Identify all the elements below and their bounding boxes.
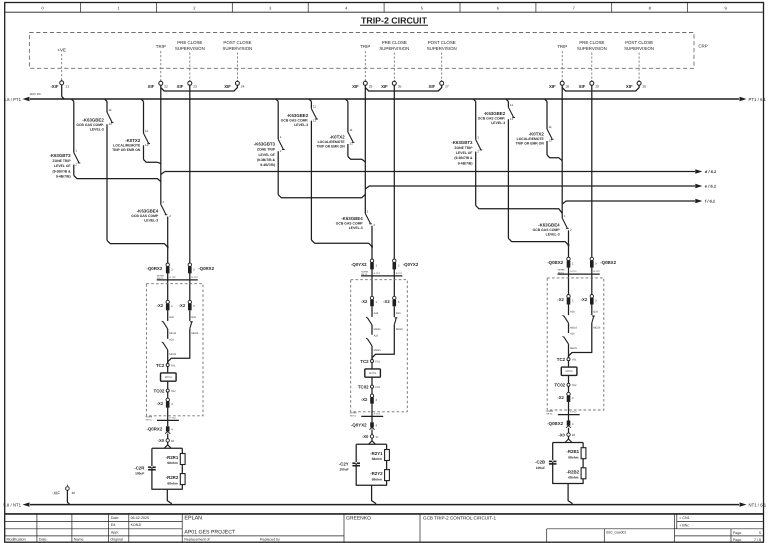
- svg-text:LEVEL OF: LEVEL OF: [54, 164, 71, 168]
- contact -K63GBT3 (R) zone trip: [74, 101, 161, 181]
- svg-text:12: 12: [313, 118, 317, 122]
- svg-text:TRIP: TRIP: [557, 44, 567, 49]
- svg-text:B26: B26: [593, 310, 598, 313]
- svg-text:PT1 / 6.1: PT1 / 6.1: [749, 97, 767, 102]
- svg-text:-Q0RX2: -Q0RX2: [146, 427, 162, 432]
- resistor -R2B1 (B): [581, 448, 586, 459]
- junction PT1 bus tap -K0TX2 (B): [545, 99, 547, 101]
- svg-text:B-TC2: B-TC2: [396, 272, 403, 275]
- svg-text:TC02: TC02: [554, 383, 565, 388]
- svg-text:1: 1: [564, 214, 566, 218]
- svg-text:12: 12: [145, 143, 149, 147]
- svg-text:LOCAL/REMOTE: LOCAL/REMOTE: [517, 137, 545, 141]
- svg-text:-K0TX2: -K0TX2: [125, 138, 141, 143]
- svg-text:1: 1: [280, 135, 282, 139]
- svg-text:2: 2: [570, 228, 572, 232]
- svg-text:MTC2: MTC2: [369, 372, 377, 375]
- svg-text:9: 9: [724, 6, 727, 11]
- resistor -R2R1 (R): [180, 454, 185, 465]
- wire split -X0 to RC network (Y): [369, 438, 376, 444]
- svg-text:MD25: MD25: [374, 349, 381, 352]
- svg-text:LEVEL-3: LEVEL-3: [144, 218, 158, 222]
- label -K63GBT3 (R): [49, 153, 71, 178]
- svg-text:11: 11: [510, 103, 513, 107]
- junction PT1 bus tap -K63GBT3 (Y): [276, 99, 278, 101]
- junction tap to output line (B): [562, 201, 566, 204]
- wire X2:5 to aux contact (Y): [393, 306, 395, 317]
- svg-text:-K63GBT3: -K63GBT3: [451, 140, 473, 145]
- svg-text:7: 7: [573, 6, 576, 11]
- capacitor -C2R 100uF (R): [148, 466, 156, 470]
- title block field Ed.: [111, 523, 141, 527]
- terminal XIF:24 (POST CLOSE SUP R): [224, 80, 244, 89]
- wire X2:5 to aux contact (R): [189, 310, 191, 321]
- svg-text:5: 5: [398, 263, 400, 267]
- svg-text:AB-CL: AB-CL: [350, 414, 357, 417]
- contact -K63GBE2 (B) GCB gas comp level-3: [508, 101, 568, 246]
- junction PT1 bus tap -K63GBE2 (Y): [309, 99, 311, 101]
- signal label TRIP (B phase): [557, 44, 567, 80]
- title block page count: [733, 538, 761, 542]
- svg-text:5: 5: [398, 300, 400, 304]
- terminal -X0:18 (B): [558, 428, 575, 438]
- svg-text:PRE CLOSE: PRE CLOSE: [382, 40, 407, 45]
- svg-text:8: 8: [649, 6, 652, 11]
- wire RC network to NT1 bus (R): [167, 489, 171, 504]
- svg-text:Name: Name: [74, 538, 84, 542]
- signal label TRIP (Y phase): [360, 44, 370, 80]
- svg-text:-K63GBE4: -K63GBE4: [137, 208, 159, 213]
- svg-text:NT1 / 6.1: NT1 / 6.1: [749, 503, 767, 508]
- wire -XIF:28 to NT1 bus: [67, 490, 69, 504]
- svg-text:SUPERVISION: SUPERVISION: [427, 46, 457, 51]
- svg-text:A25: A25: [169, 338, 174, 341]
- terminal XIF:23 (PRE CLOSE SUP R): [177, 80, 197, 89]
- destination arrow d / 6.1: [695, 169, 717, 174]
- terminal XIF:30 (POST CLOSE SUP B): [626, 80, 646, 89]
- svg-text:0: 0: [41, 6, 44, 11]
- wire RC network frame (Y): [356, 444, 386, 485]
- svg-text:-X0: -X0: [158, 438, 165, 443]
- svg-text:TRIP OR EMR ON: TRIP OR EMR ON: [112, 148, 141, 152]
- svg-text:TRIP OR EMR ON: TRIP OR EMR ON: [316, 145, 345, 149]
- source arrow NT1 from sheet 5.8: [3, 502, 29, 507]
- svg-text:9-4B/7/B): 9-4B/7/B): [458, 161, 473, 165]
- contact -K63GBE4 (R) GCB gas comp level-3: [161, 200, 171, 263]
- terminal -X2:5 (R): [188, 300, 195, 310]
- resistor -R2Y1 (Y): [385, 450, 390, 461]
- svg-text:B-TC2: B-TC2: [593, 270, 600, 273]
- svg-text:26: 26: [398, 85, 402, 89]
- svg-text:1: 1: [117, 6, 120, 11]
- svg-text:A25: A25: [570, 333, 575, 336]
- svg-text:-Q0BX2: -Q0BX2: [600, 260, 616, 265]
- svg-text:100uF: 100uF: [339, 468, 348, 472]
- svg-text:XIF: XIF: [352, 84, 359, 89]
- svg-text:-X0: -X0: [362, 434, 369, 439]
- svg-text:SUPERVISION: SUPERVISION: [577, 46, 607, 51]
- svg-text:28: 28: [72, 491, 76, 495]
- svg-text:SUPERVISION: SUPERVISION: [379, 46, 409, 51]
- svg-text:(9-3B/7/B &: (9-3B/7/B &: [257, 158, 276, 162]
- terminal -X2:5 (Y): [393, 296, 400, 306]
- svg-text:MTC2: MTC2: [566, 370, 574, 373]
- svg-text:POST CLOSE: POST CLOSE: [625, 40, 653, 45]
- contact -K0TX2 (R) local/remote trip: [144, 101, 161, 163]
- svg-text:12: 12: [349, 142, 353, 146]
- svg-text:00C_Gas001: 00C_Gas001: [606, 531, 626, 535]
- svg-text:LEVEL-3: LEVEL-3: [546, 233, 560, 237]
- svg-text:LEVEL OF: LEVEL OF: [258, 153, 275, 157]
- svg-text:GREENKO: GREENKO: [346, 515, 371, 521]
- svg-text:5: 5: [759, 531, 761, 535]
- dashed breaker box TC2 (B): [547, 278, 604, 410]
- svg-text:1: 1: [171, 267, 173, 271]
- svg-text:-Q0YX2: -Q0YX2: [403, 262, 419, 267]
- svg-text:AB-CL: AB-CL: [546, 413, 553, 416]
- wire node bar upper (B): [558, 273, 600, 275]
- signal label PRE CLOSE SUPERVISION (B): [577, 40, 607, 80]
- trip coil MTC2 (B): [561, 361, 577, 384]
- wire split -X0 to RC network (R): [164, 442, 171, 448]
- svg-text:TRIP: TRIP: [156, 44, 166, 49]
- svg-text:AP01 GES PROJECT: AP01 GES PROJECT: [184, 530, 236, 536]
- contact -K63GBT3 (B) zone trip: [476, 101, 563, 213]
- svg-text:11: 11: [145, 129, 148, 133]
- svg-text:68ohm: 68ohm: [372, 477, 382, 481]
- svg-text:-Q0RX2: -Q0RX2: [146, 266, 162, 271]
- svg-text:XIF: XIF: [381, 84, 388, 89]
- label -K63GBE4 (R): [131, 208, 159, 222]
- terminal -XIF:21 (+VE feed): [30, 80, 70, 96]
- svg-text:-R2Y2: -R2Y2: [370, 471, 383, 476]
- top ruler row separator: [5, 11, 764, 13]
- svg-text:LEVEL-3: LEVEL-3: [294, 123, 308, 127]
- svg-text:28: 28: [566, 85, 570, 89]
- svg-text:A-TC2: A-TC2: [374, 412, 381, 415]
- svg-text:-K63GBE2: -K63GBE2: [287, 113, 309, 118]
- signal label PRE CLOSE SUPERVISION (Y): [379, 40, 409, 80]
- aux contact MD25 (B): [563, 336, 569, 357]
- svg-text:-XIF: -XIF: [52, 490, 60, 495]
- wire trip output d to sheet 6.1: [165, 171, 695, 173]
- svg-text:AB-CL: AB-CL: [558, 271, 565, 274]
- terminal -Q0YX2:5 (supervision in, Y): [393, 259, 400, 269]
- svg-text:XIF: XIF: [429, 84, 436, 89]
- wire PRE CLOSE conductor R (XIF:23 down to -Q0RX2): [189, 85, 191, 263]
- svg-text:110V DC: 110V DC: [30, 92, 42, 96]
- svg-text:-K63GBE4: -K63GBE4: [538, 223, 560, 228]
- svg-text:4: 4: [572, 396, 574, 400]
- svg-text:A26: A26: [374, 312, 379, 315]
- svg-text:A-TC2: A-TC2: [169, 416, 176, 419]
- aux contact MD26 (R): [168, 322, 193, 364]
- svg-text:4: 4: [345, 6, 348, 11]
- svg-text:2: 2: [374, 223, 376, 227]
- svg-text:1: 1: [375, 300, 377, 304]
- terminal -Q0BX2:1 (coil circuit in, B): [567, 257, 574, 267]
- svg-text:d / 6.1: d / 6.1: [705, 169, 717, 174]
- svg-text:1: 1: [375, 263, 377, 267]
- svg-text:Replacement of: Replacement of: [184, 538, 209, 542]
- svg-text:2: 2: [193, 6, 196, 11]
- junction dot GBE2 output to coil conductor (R): [167, 246, 169, 248]
- svg-text:TRIP-2 CIRCUIT: TRIP-2 CIRCUIT: [361, 15, 428, 25]
- node TC02 (Y): [358, 384, 381, 389]
- svg-text:+VE: +VE: [57, 48, 65, 53]
- label -K63GBE4 (Y): [336, 216, 364, 230]
- svg-text:5: 5: [193, 304, 195, 308]
- svg-text:29: 29: [595, 85, 599, 89]
- label -K63GBE2 (B): [478, 111, 506, 125]
- terminal XIF:28 (TRIP B): [549, 80, 569, 89]
- signal label TRIP (R phase): [156, 44, 166, 80]
- terminal -XIF:28 (spare, bottom left): [52, 485, 75, 496]
- wire X2:4 through lower bar to -Q0YX2:4 (Y): [371, 404, 373, 423]
- svg-text:SUPERVISION: SUPERVISION: [222, 46, 252, 51]
- svg-text:-Q0YX2: -Q0YX2: [351, 423, 367, 428]
- signal label POST CLOSE SUPERVISION (R): [222, 40, 252, 80]
- terminal -X2:4 (Y): [370, 388, 377, 404]
- destination arrow f / 6.1: [695, 199, 716, 204]
- resistor -R2R2 (R): [180, 474, 185, 485]
- svg-text:11: 11: [109, 108, 112, 112]
- svg-text:LEVEL-3: LEVEL-3: [349, 226, 363, 230]
- svg-text:12: 12: [109, 122, 113, 126]
- svg-text:-X2: -X2: [557, 395, 564, 400]
- svg-text:MD26: MD26: [191, 332, 198, 335]
- wire X2:4 through lower bar to -Q0BX2:4 (B): [568, 402, 570, 421]
- svg-text:68ohm: 68ohm: [568, 455, 578, 459]
- svg-text:MD16: MD16: [374, 328, 381, 331]
- svg-text:Ed.: Ed.: [111, 523, 116, 527]
- svg-text:Original: Original: [110, 538, 123, 542]
- svg-text:-K0TX2: -K0TX2: [529, 132, 545, 137]
- wire bus PT1 (+VE 110V DC): [30, 98, 739, 100]
- svg-text:-C2R: -C2R: [134, 465, 145, 470]
- junction PT1 bus tap -K63GBT3 (B): [473, 99, 475, 101]
- title block field Date: [111, 516, 149, 520]
- svg-text:LOCAL/REMOTE: LOCAL/REMOTE: [318, 140, 346, 144]
- svg-text:1: 1: [171, 304, 173, 308]
- svg-text:= CN1: = CN1: [679, 516, 689, 520]
- terminal -X2:4 (R): [166, 392, 173, 408]
- terminal -Q0BX2:4 (coil circuit out, B): [566, 421, 574, 428]
- resistor -R2B2 (B): [581, 468, 586, 479]
- wire link XIF:25 to XIF:27: [365, 85, 441, 91]
- wire link XIF:28 to XIF:30: [562, 85, 639, 91]
- title block grid (right): [182, 514, 763, 542]
- terminal -X2:5 (B): [590, 295, 597, 305]
- wire X2:1 to aux contact 1 (Y): [371, 306, 373, 317]
- label -R2B1 (B): [566, 449, 579, 459]
- svg-text:3: 3: [269, 6, 272, 11]
- svg-text:-Q0BX2: -Q0BX2: [547, 421, 563, 426]
- junction PT1 bus tap -K63GBE2 (B): [506, 99, 508, 101]
- svg-text:-K63GBE2: -K63GBE2: [82, 118, 104, 123]
- wire split -X0 to RC network (B): [565, 436, 572, 442]
- junction PT1 bus tap -K0TX2 (Y): [346, 99, 348, 101]
- wire RC network to NT1 bus (Y): [372, 485, 376, 504]
- svg-text:XIF: XIF: [177, 84, 184, 89]
- wire RC network frame (B): [553, 443, 583, 484]
- svg-text:TR2: TR2: [171, 390, 176, 393]
- label -C2B (B): [535, 460, 545, 470]
- svg-text:f / 6.1: f / 6.1: [705, 199, 716, 204]
- svg-text:Replaced by: Replaced by: [260, 538, 280, 542]
- svg-text:27: 27: [445, 85, 449, 89]
- contact -K63GBE2 (R) GCB gas comp level-3: [107, 101, 168, 248]
- dashed breaker box TC2 (R): [146, 284, 203, 416]
- terminal -Q0RX2:1 (coil circuit in, R): [166, 263, 173, 273]
- aux contact MD16 (Y): [366, 317, 372, 335]
- svg-text:1: 1: [75, 148, 77, 152]
- svg-text:(9-3B/7/B &: (9-3B/7/B &: [53, 169, 72, 173]
- contact -K63GBE2 (Y) GCB gas comp level-3: [311, 101, 372, 248]
- signal label POST CLOSE SUPERVISION (Y): [427, 40, 457, 80]
- aux contact MD16 (R): [162, 321, 168, 339]
- svg-text:-Q0YX2: -Q0YX2: [351, 262, 367, 267]
- contact -K63GBE4 (B) GCB gas comp level-3: [562, 214, 572, 257]
- svg-text:68ohm: 68ohm: [167, 481, 177, 485]
- svg-text:5: 5: [421, 6, 424, 11]
- svg-text:1: 1: [572, 262, 574, 266]
- svg-text:TR2: TR2: [375, 386, 380, 389]
- aux contact MD25 (Y): [366, 338, 372, 359]
- svg-text:Page: Page: [733, 531, 741, 535]
- wire TRIP conductor B (XIF:28 down to -K63GBE4): [561, 85, 563, 218]
- label -R2B2 (B): [566, 469, 579, 479]
- svg-text:-R2B1: -R2B1: [566, 449, 579, 454]
- svg-text:LEVEL-3: LEVEL-3: [90, 128, 104, 132]
- svg-text:-R2R1: -R2R1: [166, 455, 179, 460]
- svg-text:MD16: MD16: [570, 326, 577, 329]
- tiny net labels above upper bar (B): [558, 269, 601, 275]
- svg-text:XIF: XIF: [224, 84, 231, 89]
- capacitor -C2Y 100uF (Y): [352, 462, 360, 466]
- svg-text:TRIP OR EMR ON: TRIP OR EMR ON: [516, 142, 545, 146]
- signal label +VE: [57, 48, 65, 81]
- destination arrow NT1 to sheet 6.1: [740, 502, 767, 507]
- svg-text:POST CLOSE: POST CLOSE: [428, 40, 456, 45]
- aux contact MD25 (R): [162, 342, 168, 363]
- terminal -X2:1 (Y): [370, 296, 377, 306]
- svg-text:-R2Y1: -R2Y1: [370, 451, 383, 456]
- terminal -X0:17 (Y): [362, 430, 379, 440]
- node TC2 (Y): [360, 359, 380, 364]
- svg-text:-X2: -X2: [157, 401, 164, 406]
- wire node bar upper (Y): [361, 275, 402, 277]
- wire -Q0RX2 terminals through node bar (R): [168, 273, 190, 303]
- svg-text:23: 23: [193, 85, 197, 89]
- svg-text:-X2: -X2: [361, 299, 368, 304]
- svg-text:ZONE TRIP: ZONE TRIP: [53, 159, 72, 163]
- svg-text:68ohm: 68ohm: [568, 476, 578, 480]
- svg-text:MD16: MD16: [169, 332, 176, 335]
- svg-text:-XIF: -XIF: [50, 84, 58, 89]
- contact -K0TX2 (Y) local/remote trip: [348, 101, 365, 162]
- wire trip output f to sheet 6.1: [566, 200, 695, 202]
- wire X2:1 to aux contact 1 (R): [167, 310, 169, 321]
- wire node bar lower (Y): [361, 415, 383, 417]
- svg-text:1: 1: [162, 200, 164, 204]
- svg-text:NORM: NORM: [146, 416, 153, 419]
- svg-text:2: 2: [477, 149, 479, 153]
- terminal -Q0RX2:5 (supervision in, R): [188, 263, 195, 273]
- svg-text:TC02: TC02: [358, 384, 369, 389]
- tiny net labels above upper bar (Y): [361, 270, 403, 276]
- wire bus NT1 (-VE): [30, 504, 739, 506]
- svg-text:PRE CLOSE: PRE CLOSE: [579, 40, 604, 45]
- title block row Modification: [7, 538, 281, 542]
- svg-text:Page: Page: [733, 538, 741, 542]
- svg-text:GCB GAS COMP.: GCB GAS COMP.: [76, 123, 104, 127]
- title block grid (left): [5, 514, 764, 542]
- wire -Q0YX2 terminals through node bar (Y): [372, 269, 394, 299]
- svg-text:2: 2: [280, 149, 282, 153]
- svg-text:Date: Date: [111, 516, 119, 520]
- svg-text:100uF: 100uF: [536, 466, 545, 470]
- dashed interface box (remote signals): [29, 33, 694, 69]
- label -K0TX2 (R): [112, 138, 141, 152]
- wire TRIP conductor R (XIF:22 down to -K63GBE4): [160, 85, 162, 204]
- svg-text:TC02: TC02: [154, 388, 165, 393]
- svg-text:22: 22: [164, 85, 168, 89]
- svg-text:TC2: TC2: [557, 357, 566, 362]
- wire X2:4 through lower bar to -Q0RX2:4 (R): [167, 408, 169, 427]
- label -R2Y2 (Y): [370, 471, 383, 481]
- svg-text:TC2: TC2: [156, 363, 165, 368]
- wire XIF:21 down to PT1 bus: [62, 85, 64, 99]
- terminal -Q0YX2:1 (coil circuit in, Y): [370, 259, 377, 269]
- svg-text:-C2B: -C2B: [535, 460, 545, 465]
- node TC02 (R): [154, 388, 177, 393]
- svg-text:16: 16: [171, 439, 175, 443]
- svg-text:TR1: TR1: [171, 364, 176, 367]
- dashed breaker box TC2 (Y): [351, 280, 408, 412]
- svg-text:9-4B/7/B): 9-4B/7/B): [56, 174, 71, 178]
- tiny net labels above lower bar (R): [146, 416, 177, 422]
- svg-text:TR2: TR2: [572, 384, 577, 387]
- svg-text:NORM: NORM: [558, 269, 565, 272]
- svg-text:A26: A26: [169, 316, 174, 319]
- svg-text:LOCAL/REMOTE: LOCAL/REMOTE: [113, 144, 141, 148]
- svg-text:-K63GBT3: -K63GBT3: [49, 153, 71, 158]
- svg-text:A-TC2: A-TC2: [169, 276, 176, 279]
- junction PT1 bus tap -K63GBT3 (R): [71, 99, 73, 101]
- svg-text:NORM: NORM: [350, 412, 357, 415]
- junction tap to output line (R): [161, 172, 165, 175]
- svg-text:-X2: -X2: [179, 303, 186, 308]
- svg-text:7 / 8: 7 / 8: [754, 538, 761, 542]
- svg-text:4: 4: [375, 398, 377, 402]
- svg-text:AB-CL: AB-CL: [157, 277, 164, 280]
- wire PRE CLOSE conductor B (XIF:29 down to -Q0BX2): [591, 85, 593, 257]
- label -K63GBE2 (Y): [281, 113, 309, 127]
- svg-text:GCB GAS COMP: GCB GAS COMP: [533, 228, 561, 232]
- label -C2R (R): [134, 465, 145, 475]
- terminal XIF:22 (TRIP R): [148, 80, 168, 89]
- svg-text:1: 1: [367, 209, 369, 213]
- wire node bar lower (B): [558, 414, 580, 416]
- svg-text:LEVEL-3: LEVEL-3: [491, 121, 505, 125]
- wire -Q0BX2 terminals through node bar (B): [569, 268, 592, 298]
- svg-text:ZONE TRIP: ZONE TRIP: [454, 146, 473, 150]
- label -C2Y (Y): [339, 461, 349, 471]
- svg-text:Modification: Modification: [7, 538, 26, 542]
- terminal XIF:26 (PRE CLOSE SUP Y): [381, 80, 401, 89]
- node TC2 (B): [557, 357, 577, 362]
